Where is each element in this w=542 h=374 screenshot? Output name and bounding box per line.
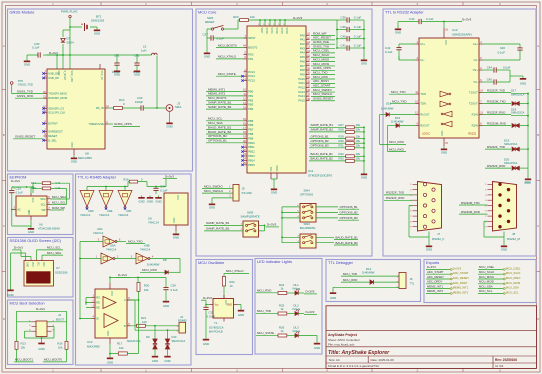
svg-text:VCC: VCC [31, 262, 33, 267]
no-connect marks U8 [42, 72, 44, 74]
tvs diode D10 SMAJ5.0CA [167, 330, 169, 339]
svg-text:Rev: 20250106: Rev: 20250106 [495, 358, 517, 362]
svg-text:74HC14: 74HC14 [118, 213, 129, 217]
svg-text:AT24CS08-SSHM: AT24CS08-SSHM [38, 227, 60, 231]
svg-text:0.1uF: 0.1uF [385, 50, 393, 54]
svg-text:EXTINT: EXTINT [48, 122, 58, 126]
svg-text:PD0: PD0 [248, 53, 254, 57]
svg-text:PB14: PB14 [248, 158, 255, 162]
svg-text:MCU_SDA: MCU_SDA [208, 121, 223, 125]
pin T1IN / MCU_TXD [416, 93, 420, 95]
svg-text:D+3V3: D+3V3 [462, 17, 472, 21]
wire reset net [207, 20, 240, 38]
pin WP / ROM_WP [47, 209, 51, 211]
ground under D10 [167, 354, 169, 356]
svg-text:TTL to RS485 Adapter: TTL to RS485 Adapter [78, 175, 117, 180]
pin PB6 / net MCU_SDA [244, 124, 248, 126]
svg-text:RS232M_TXD: RS232M_TXD [461, 201, 480, 205]
pin SDA/SPI_CS [44, 108, 48, 110]
svg-text:GND: GND [173, 217, 176, 223]
pin stub VCC_RF [99, 64, 101, 69]
resistor R16 10k [65, 341, 68, 349]
pin SCL / MCU_SCL [47, 203, 51, 205]
svg-text:SDA/SPI_CS: SDA/SPI_CS [48, 107, 64, 111]
pin C1- [416, 59, 420, 61]
svg-text:PA12: PA12 [298, 86, 305, 90]
pin RF_IN [105, 107, 109, 109]
svg-text:R2IN: R2IN [472, 124, 478, 128]
svg-text:STM32F103CBT6: STM32F103CBT6 [308, 174, 333, 178]
capacitor C35 0.01uF [205, 305, 207, 308]
svg-text:GND: GND [114, 73, 120, 77]
wire oled gnd [11, 253, 26, 288]
svg-text:MCU_CSEL: MCU_CSEL [506, 266, 521, 270]
svg-text:OPTIONS_B2: OPTIONS_B2 [208, 134, 227, 138]
svg-text:D+3V3: D+3V3 [427, 265, 436, 269]
svg-text:BAUD_RATE_B1: BAUD_RATE_B1 [208, 125, 231, 129]
svg-text:BAUDRATE: BAUDRATE [300, 226, 316, 230]
wire vcc stub U10 [109, 283, 111, 289]
svg-text:74HC14: 74HC14 [148, 221, 159, 225]
pin R2OUT [416, 125, 420, 127]
svg-text:USB_DP: USB_DP [48, 76, 59, 80]
svg-text:GNSS_1PPS: GNSS_1PPS [114, 122, 132, 126]
svg-text:BAUD_RATE_B1: BAUD_RATE_B1 [311, 152, 334, 156]
svg-text:GND: GND [209, 206, 215, 210]
pin R1IN / RS232F_RXD [479, 114, 483, 116]
pin PA7 / net MCU_MOSI [306, 65, 310, 67]
svg-text:10k: 10k [356, 144, 361, 148]
pin gnd U9 [175, 225, 177, 231]
svg-text:SMAJ15CA: SMAJ15CA [511, 111, 525, 115]
svg-text:A: A [124, 298, 126, 302]
pin GND bottom U12 [443, 138, 445, 146]
svg-text:PB1: PB1 [248, 94, 254, 98]
svg-text:74HC14: 74HC14 [93, 231, 104, 235]
wire spare gates rail [87, 187, 128, 191]
svg-text:RS232F_RXD: RS232F_RXD [386, 196, 404, 200]
svg-text:PWR_FLAG: PWR_FLAG [61, 9, 78, 13]
svg-text:MCU_BOOT1: MCU_BOOT1 [15, 358, 33, 362]
resistor R22 10 [222, 276, 225, 286]
title block [326, 306, 536, 369]
svg-text:SAMP_RATE_B1: SAMP_RATE_B1 [208, 101, 232, 105]
pin SAFEBOOT [44, 131, 48, 133]
svg-text:0.1uF: 0.1uF [426, 17, 434, 21]
svg-text:T2OUT: T2OUT [469, 102, 478, 106]
svg-text:A2: A2 [17, 208, 21, 212]
svg-text:GND: GND [330, 296, 336, 300]
svg-text:10k: 10k [356, 128, 361, 132]
pin PA10 / net MCU_RXD [306, 78, 310, 80]
svg-text:RO: RO [96, 296, 100, 300]
pin PA0 / net ROM_WP [306, 34, 310, 36]
svg-text:BAUD_RATE_B2: BAUD_RATE_B2 [336, 241, 359, 245]
svg-text:D+3V3: D+3V3 [306, 290, 315, 294]
svg-text:SMA: SMA [175, 105, 181, 109]
svg-text:1N4148W: 1N4148W [381, 106, 394, 110]
inverter U9E 74HC14 [99, 191, 113, 207]
svg-text:OPTIONS: OPTIONS [300, 192, 313, 196]
svg-text:MCU_SCL: MCU_SCL [479, 289, 493, 293]
svg-text:RS232_F: RS232_F [432, 237, 444, 241]
pin PB9 / net OPTIONS_B2 [244, 137, 248, 139]
section GNSS Module [8, 9, 193, 171]
svg-text:MCU_SDA: MCU_SDA [479, 284, 493, 288]
pin C2+ [479, 43, 483, 45]
svg-text:ST.LINK: ST.LINK [242, 191, 253, 195]
svg-text:GND: GND [361, 176, 367, 180]
svg-text:GND: GND [28, 230, 34, 234]
svg-text:RESET: RESET [48, 134, 57, 138]
svg-text:SG-8002CA: SG-8002CA [209, 325, 224, 329]
svg-text:R19: R19 [123, 177, 129, 181]
svg-text:MCU_SDA: MCU_SDA [47, 251, 61, 255]
svg-text:10k: 10k [356, 139, 361, 143]
svg-text:U11: U11 [308, 169, 314, 173]
svg-text:OPTIONS_B3: OPTIONS_B3 [311, 144, 330, 148]
pin PB2 / net MCU_BOOT1 [244, 99, 248, 101]
capacitor C38 0.1uF [165, 282, 167, 288]
capacitor C46 0.1uF [483, 44, 521, 48]
svg-text:GND: GND [227, 304, 233, 307]
svg-text:0.01uF: 0.01uF [207, 315, 216, 319]
svg-text:BOOT0: BOOT0 [248, 46, 258, 50]
svg-text:0.1uF: 0.1uF [16, 190, 24, 194]
svg-text:10: 10 [230, 284, 234, 288]
ground under C32 [136, 68, 138, 71]
svg-text:J8: J8 [512, 232, 515, 236]
section SSD1306 OLED Screen [8, 238, 74, 298]
svg-text:10k: 10k [356, 134, 361, 138]
svg-text:RS232F_TXD: RS232F_TXD [487, 88, 505, 92]
svg-text:74HC14: 74HC14 [99, 213, 110, 217]
svg-text:SAFEBOOT: SAFEBOOT [48, 130, 63, 134]
svg-text:GND: GND [107, 330, 110, 336]
svg-text:10k: 10k [356, 157, 361, 161]
svg-text:MEMS_INT1: MEMS_INT1 [208, 87, 226, 91]
pin T2OUT / RS232M_TXD diode D17 [479, 103, 483, 105]
svg-text:GND: GND [94, 32, 100, 36]
svg-text:GND: GND [138, 199, 144, 203]
svg-text:VCC: VCC [444, 40, 447, 45]
svg-text:R30: R30 [339, 139, 345, 143]
svg-text:BH-PCHLB: BH-PCHLB [209, 329, 223, 333]
svg-text:GND: GND [520, 82, 526, 86]
svg-text:RXD/SPI_MOSI: RXD/SPI_MOSI [48, 96, 67, 100]
svg-text:D9: D9 [146, 335, 150, 339]
ground ttl debugger [332, 291, 334, 293]
decoupling caps C36 C39 C40 C41 [336, 20, 338, 48]
svg-text:PA4: PA4 [300, 51, 305, 55]
svg-text:GND: GND [501, 248, 507, 252]
unused left pins PB11-PB15 [244, 146, 248, 148]
svg-text:TTL Debugger: TTL Debugger [328, 260, 354, 265]
svg-text:VDDA: VDDA [285, 28, 288, 35]
svg-text:D15: D15 [386, 102, 392, 106]
label MCU_BOOT0 [66, 349, 68, 362]
svg-text:BAUD_RATE_B2: BAUD_RATE_B2 [208, 130, 231, 134]
pin PA8 / net GNSS_1PPS [306, 69, 310, 71]
svg-text:ROM_WP: ROM_WP [52, 206, 65, 210]
opamp triangles inside U10 [103, 297, 116, 309]
svg-text:GND: GND [71, 160, 77, 164]
ground under U6 [30, 226, 32, 228]
pin PB3 / net SAMP_RATE_B1 [244, 104, 248, 106]
svg-text:MCU_SCLK: MCU_SCLK [479, 270, 494, 274]
svg-text:VBAT: VBAT [260, 28, 263, 34]
svg-text:C46: C46 [500, 46, 506, 50]
svg-text:C41: C41 [340, 44, 346, 48]
wire A B to bus [131, 300, 137, 326]
ground under D9 [154, 354, 156, 356]
svg-text:C1+: C1+ [420, 42, 425, 46]
wire oled scl sda [37, 250, 43, 259]
svg-text:TXD/SPI_MISO: TXD/SPI_MISO [48, 92, 67, 96]
ground under oled [10, 288, 12, 290]
svg-text:GND: GND [395, 31, 401, 35]
pin C1+ [416, 43, 420, 45]
svg-text:U10: U10 [87, 340, 93, 344]
svg-text:GND: GND [166, 125, 172, 129]
svg-text:MCU_SDA: MCU_SDA [506, 286, 519, 290]
svg-text:MCU_XTALO: MCU_XTALO [218, 55, 237, 59]
svg-text:ADC_DRDY: ADC_DRDY [427, 280, 443, 284]
svg-text:D20: D20 [504, 157, 510, 161]
wire vdd pins drop [259, 20, 261, 26]
connector J7 RS232_F DB9 [418, 182, 442, 232]
svg-text:T2IN: T2IN [420, 102, 426, 106]
svg-text:R23: R23 [233, 15, 239, 19]
svg-text:TTL to RS232 Adapter: TTL to RS232 Adapter [385, 10, 424, 15]
svg-text:D19: D19 [504, 138, 510, 142]
no-connect PC14 PC15 [241, 75, 243, 77]
svg-text:GND: GND [524, 180, 530, 184]
pin VS+ [479, 69, 483, 71]
svg-text:U6: U6 [39, 222, 43, 226]
ground under J3 [169, 111, 171, 120]
svg-text:SAMP_RATE_B2: SAMP_RATE_B2 [311, 128, 334, 132]
svg-text:D+3v3: D+3v3 [165, 174, 174, 178]
svg-text:D10: D10 [172, 335, 177, 339]
ic U8 NEO-M8N GNSS receiver [47, 69, 105, 149]
wires U10 left [80, 298, 92, 319]
pin PA5 / net MCU_SCLK [306, 56, 310, 58]
svg-text:MCU_TXD: MCU_TXD [392, 100, 407, 104]
pin PC15 [244, 80, 248, 82]
svg-text:PB7: PB7 [248, 128, 254, 132]
svg-text:R28: R28 [339, 128, 345, 132]
pin NRST [244, 37, 248, 39]
svg-text:PA9: PA9 [300, 72, 305, 76]
svg-text:PA2: PA2 [300, 42, 305, 46]
svg-text:GNSS_TXD: GNSS_TXD [18, 83, 33, 87]
svg-text:SMAJ15CA: SMAJ15CA [511, 92, 525, 96]
svg-text:R33: R33 [339, 157, 345, 161]
section MCU Core [196, 9, 372, 256]
svg-text:D+3V3: D+3V3 [293, 16, 303, 20]
wire SW5 to 3v3 [259, 225, 265, 231]
svg-text:10k: 10k [250, 15, 255, 19]
svg-text:D_SEL: D_SEL [48, 138, 57, 142]
svg-text:SMS1363: SMS1363 [91, 18, 105, 22]
svg-text:SAMP_RATE_B1: SAMP_RATE_B1 [311, 123, 334, 127]
pin PA9 / net MCU_TXD [306, 73, 310, 75]
svg-text:VDD3: VDD3 [280, 28, 282, 35]
svg-text:C2+: C2+ [473, 42, 478, 46]
svg-text:MCU_STATE: MCU_STATE [257, 331, 274, 335]
pin B U10 [127, 325, 131, 327]
svg-text:VDD1: VDD1 [270, 28, 272, 35]
svg-text:0.1uF: 0.1uF [354, 34, 362, 38]
pin PB4 / net SAMP_RATE_B2 [244, 108, 248, 110]
svg-text:Date: 2025-01-06: Date: 2025-01-06 [371, 358, 395, 362]
svg-text:GND: GND [155, 199, 161, 203]
svg-text:SAMPLERATE: SAMPLERATE [241, 214, 260, 218]
svg-text:C40: C40 [340, 34, 346, 38]
ground under C31 [116, 68, 118, 71]
svg-text:RS232M_TXD: RS232M_TXD [487, 99, 506, 103]
svg-text:MCU_BOOT0: MCU_BOOT0 [44, 358, 62, 362]
svg-text:U12: U12 [452, 28, 458, 32]
svg-text:GNSS_TXD: GNSS_TXD [17, 89, 34, 93]
ground under C30 [26, 55, 28, 58]
svg-text:SMAJ15CA: SMAJ15CA [504, 161, 518, 165]
svg-text:MCU_MOSI: MCU_MOSI [506, 281, 521, 285]
ground under C37 [206, 38, 208, 50]
section TTL to RS485 Adapter [76, 174, 192, 365]
svg-text:MCU Boot Selection: MCU Boot Selection [10, 301, 45, 306]
svg-text:D+3v3: D+3v3 [14, 246, 23, 250]
svg-text:PA14: PA14 [298, 94, 305, 98]
svg-text:MCU_SCL: MCU_SCL [52, 200, 66, 204]
svg-text:1N4148W: 1N4148W [362, 271, 375, 275]
svg-text:74HC14: 74HC14 [106, 247, 117, 251]
ground under U12 [443, 146, 445, 149]
svg-text:C36: C36 [340, 16, 346, 20]
svg-text:GNSS Module: GNSS Module [10, 10, 35, 15]
svg-text:OPTIONS_B1: OPTIONS_B1 [208, 139, 227, 143]
pin R1OUT [416, 114, 420, 116]
svg-text:10k: 10k [144, 288, 149, 292]
svg-text:0.1uF: 0.1uF [498, 50, 506, 54]
wire SW3 left rail [282, 237, 300, 242]
svg-text:ADC_START: ADC_START [453, 271, 469, 275]
svg-text:WP: WP [41, 208, 46, 212]
svg-text:10k: 10k [58, 346, 63, 350]
svg-text:SAMP_RATE_B2: SAMP_RATE_B2 [208, 105, 232, 109]
svg-text:MCU Oscillator: MCU Oscillator [198, 260, 225, 265]
pin PC14 [244, 75, 248, 77]
ground left of C43 [397, 22, 399, 27]
svg-text:SAMP_RATE_B2: SAMP_RATE_B2 [206, 227, 230, 231]
svg-text:SCL: SCL [41, 202, 47, 206]
ic U10 MAX3485 [95, 289, 127, 338]
svg-text:VSSA: VSSA [276, 165, 279, 172]
section TTL Debugger [326, 260, 421, 302]
svg-text:GNSS_RESET: GNSS_RESET [313, 97, 333, 101]
pin TIMEPULSE [105, 123, 109, 125]
svg-text:DE: DE [96, 306, 100, 310]
svg-text:LED Indicator Lights: LED Indicator Lights [257, 259, 292, 264]
pin A U10 [127, 299, 131, 301]
svg-text:R2OUT: R2OUT [420, 124, 429, 128]
svg-text:Sheet: /MCU Controller/: Sheet: /MCU Controller/ [328, 338, 360, 342]
svg-text:OPTIONS_B2: OPTIONS_B2 [311, 139, 330, 143]
svg-text:PA3: PA3 [300, 46, 305, 50]
svg-text:PB5: PB5 [248, 119, 254, 123]
svg-text:BAUD_RATE_B2: BAUD_RATE_B2 [311, 157, 334, 161]
svg-text:GND: GND [426, 248, 432, 252]
svg-text:PA6: PA6 [300, 59, 305, 63]
svg-text:1uH: 1uH [141, 48, 146, 52]
svg-text:D17: D17 [511, 89, 517, 93]
wire VCC_RF drop [156, 61, 158, 108]
pin vcc top U6 [30, 193, 32, 196]
ground under U9 [175, 231, 177, 234]
svg-text:100pF: 100pF [135, 100, 143, 104]
ic U6 AT24CS08 eeprom [16, 196, 47, 216]
svg-text:RS232F_RXD: RS232F_RXD [487, 110, 505, 114]
wire dbg gnd [333, 287, 399, 290]
svg-text:MCU_TXD: MCU_TXD [257, 309, 271, 313]
pin PA12 / net ADC_START [306, 87, 310, 89]
pin C2- [479, 59, 483, 61]
svg-text:RS232F_RXD: RS232F_RXD [487, 164, 505, 168]
svg-text:PB8: PB8 [248, 132, 254, 136]
inverter U9D 74HC14 [80, 191, 94, 207]
svg-text:GND: GND [271, 191, 277, 195]
svg-text:T1IN: T1IN [420, 92, 426, 96]
svg-text:GND: GND [441, 130, 444, 136]
svg-text:C43: C43 [409, 17, 415, 21]
svg-text:C1-: C1- [420, 58, 424, 62]
wire J8 gnd [484, 221, 504, 243]
svg-text:GND: GND [24, 63, 30, 67]
svg-text:VS+: VS+ [473, 68, 479, 72]
pin SCL/SPI_CLK [44, 112, 48, 114]
wire oled vcc [21, 250, 31, 259]
pin TXD/SPI_MISO [44, 93, 48, 95]
svg-text:NRST: NRST [248, 36, 256, 40]
svg-text:A: A [3, 44, 5, 48]
svg-text:VDD2: VDD2 [275, 28, 277, 35]
svg-text:PB2: PB2 [248, 98, 254, 102]
wire J7 gnd [409, 206, 429, 244]
svg-text:0.1uF: 0.1uF [217, 36, 225, 40]
pin VS- [479, 81, 483, 83]
svg-text:MEMS_INT2: MEMS_INT2 [427, 289, 443, 293]
svg-text:MCU Core: MCU Core [198, 10, 216, 15]
svg-text:ADC_RESET: ADC_RESET [427, 275, 444, 279]
svg-text:PB3: PB3 [248, 103, 254, 107]
svg-text:VCC: VCC [176, 195, 179, 200]
svg-text:RS232M_RXD: RS232M_RXD [487, 121, 506, 125]
svg-text:GND: GND [361, 62, 367, 66]
svg-text:GND: GND [238, 313, 244, 317]
svg-text:10k: 10k [356, 123, 361, 127]
svg-text:VSS: VSS [271, 166, 273, 171]
svg-text:MCU_SCL: MCU_SCL [208, 117, 223, 121]
svg-text:RS232F_TXD: RS232F_TXD [386, 191, 404, 195]
svg-text:D+3V3: D+3V3 [453, 266, 462, 270]
svg-text:MEMS_INT2: MEMS_INT2 [208, 92, 226, 96]
svg-text:0.5uF: 0.5uF [503, 65, 511, 69]
svg-text:PB0: PB0 [248, 90, 254, 94]
pin PA11 / net ADC_BUSY [306, 82, 310, 84]
svg-text:GND: GND [71, 142, 74, 148]
ground tvs rs232 [527, 176, 529, 179]
